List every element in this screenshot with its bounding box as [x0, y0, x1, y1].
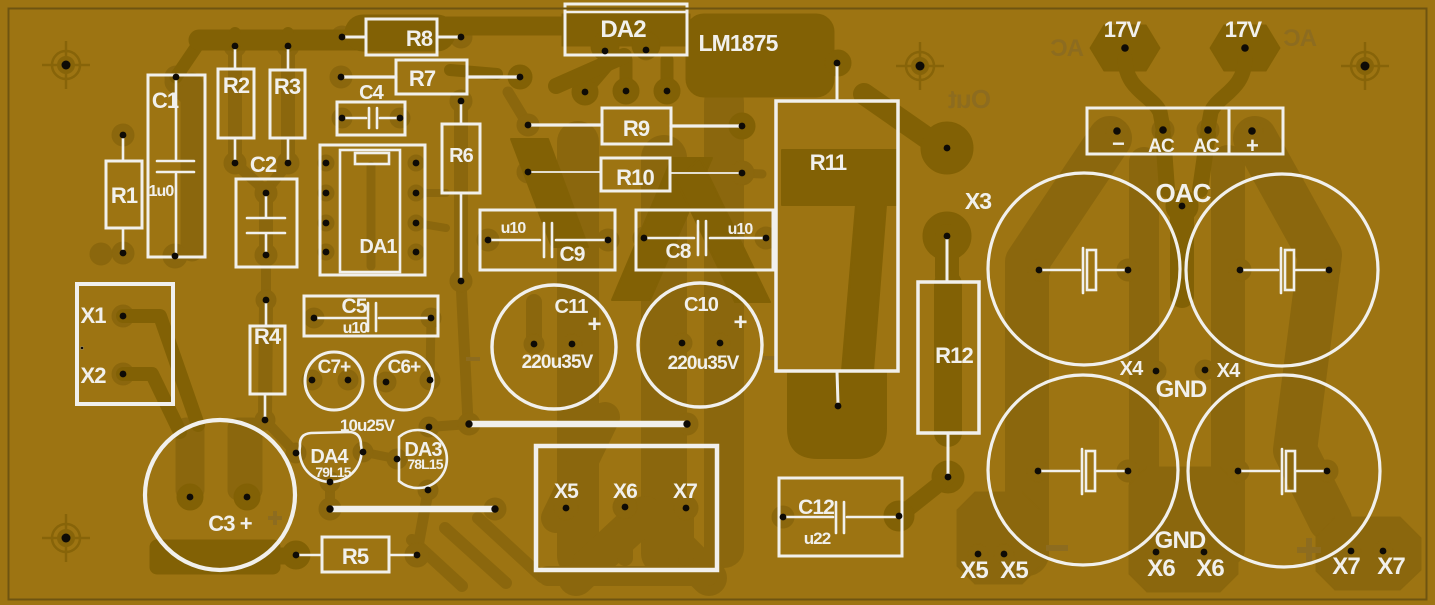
copper stems X5 X6 X7: [566, 507, 686, 558]
copper dark trace 17V left: [1125, 58, 1163, 128]
copper trace DA4 to DA3: [363, 452, 397, 459]
drill holes right: [975, 44, 1387, 557]
copper dark hex pad 17V left: [1090, 25, 1160, 71]
copper minus mark big cap bottom-left: [1046, 545, 1068, 551]
connector AC input: [1087, 108, 1283, 154]
svg-text:R10: R10: [616, 165, 654, 190]
copper band right inner left: [1129, 162, 1159, 549]
drill holes middle: [458, 47, 952, 521]
capacitor C2: [236, 179, 297, 267]
copper dark pour X3 bottom: [923, 212, 971, 260]
copper trace C5 to C6: [430, 318, 431, 378]
copper dark blob below R11: [788, 371, 886, 458]
svg-text:GND: GND: [1155, 527, 1206, 554]
svg-text:220u35V: 220u35V: [522, 352, 594, 373]
copper dark band R8 area: [363, 15, 437, 52]
copper dark lambda left: [612, 158, 712, 300]
copper octagon pour X5 X5: [957, 492, 1040, 584]
copper trace inside R3: [281, 52, 295, 158]
svg-text:+: +: [733, 309, 747, 336]
copper trace R2 bottom to C2: [235, 163, 266, 191]
svg-text:X6: X6: [1196, 555, 1224, 582]
copper trace R5 to DA3: [417, 492, 428, 552]
fiducial top-middle: [896, 42, 944, 90]
copper dark band R8 to DA2: [440, 17, 564, 36]
copper octagon pour GND X6: [1129, 467, 1238, 592]
capacitor C3: [145, 420, 295, 570]
copper trace inside C1: [176, 82, 192, 250]
svg-text:R7: R7: [409, 66, 436, 91]
drill holes left: [81, 34, 691, 559]
svg-text:X3: X3: [965, 188, 991, 214]
capacitor C12: [779, 478, 902, 556]
resistor R4: [250, 303, 285, 417]
copper dark stems to pads: [586, 60, 667, 90]
resistor R5: [299, 537, 414, 572]
copper band right inner right: [1211, 162, 1245, 549]
copper dark C3 band: [150, 540, 280, 574]
svg-text:X6: X6: [613, 480, 637, 503]
svg-text:79L15: 79L15: [315, 464, 351, 480]
copper octagon pour X7 X7: [1316, 517, 1421, 590]
svg-text:17V: 17V: [1104, 17, 1142, 42]
copper trace inside R4: [265, 305, 266, 416]
big capacitor top-left: [988, 173, 1180, 365]
copper trace R9 left: [508, 92, 528, 125]
svg-text:17V: 17V: [1225, 17, 1263, 42]
svg-text:X6: X6: [1147, 555, 1175, 582]
svg-text:X7: X7: [1377, 553, 1405, 580]
svg-text:C12: C12: [798, 496, 834, 519]
resistor R3: [270, 48, 305, 161]
svg-text:R6: R6: [449, 145, 474, 167]
drill holes DA1: [323, 160, 420, 256]
svg-text:−: −: [1112, 131, 1124, 156]
svg-text:C3 +: C3 +: [208, 511, 252, 536]
copper minus mark near C10: [763, 356, 777, 360]
copper trace DA1 inner: [367, 166, 376, 266]
copper trace R10 right: [742, 173, 762, 174]
capacitor C7: [305, 352, 363, 410]
resistor R10: [531, 158, 739, 191]
svg-text:X4: X4: [1217, 360, 1241, 382]
capacitor C8: [636, 210, 773, 270]
copper dark stubs R2 R3: [235, 33, 288, 46]
svg-text:X4: X4: [1120, 358, 1144, 380]
copper dark trace 17V right: [1208, 58, 1245, 128]
svg-text:X7: X7: [673, 480, 697, 503]
svg-text:C7+: C7+: [318, 357, 351, 378]
svg-text:X1: X1: [80, 303, 106, 328]
copper dark hex pad 17V right: [1210, 25, 1280, 71]
regulator DA4: [300, 432, 362, 482]
IC DA1: [320, 145, 425, 275]
copper dark R11 seven shape: [782, 150, 898, 371]
copper trace R6 vertical: [454, 101, 468, 281]
svg-text:X2: X2: [80, 363, 106, 388]
copper dark trace X1: [123, 316, 198, 425]
copper dark wedge mid-left: [511, 139, 588, 247]
svg-text:R5: R5: [342, 544, 369, 569]
copper trace DA3 to jumper2: [429, 424, 469, 427]
capacitor C5: [304, 296, 438, 336]
capacitor C10: [638, 283, 762, 407]
copper pads group right: [968, 119, 1393, 564]
capacitor C11: [492, 285, 616, 409]
copper minus mark near C11: [466, 357, 480, 361]
copper trace C2 to R4: [261, 255, 271, 300]
svg-text:R3: R3: [274, 74, 301, 99]
copper dark band R12 interior: [934, 284, 962, 433]
copper dark trace C1 top to band: [176, 46, 197, 77]
svg-text:C6+: C6+: [388, 357, 421, 378]
copper dark lambda right: [676, 158, 770, 302]
jumper wire 1: [330, 506, 495, 513]
copper band V2: [641, 158, 687, 553]
copper dark diagonal wedge: [556, 56, 624, 86]
copper dark band LM1875: [686, 14, 834, 97]
connector X1 X2: [77, 284, 173, 404]
copper band V1: [557, 142, 599, 556]
copper plus mark near C3: [268, 516, 282, 520]
capacitor C4: [337, 102, 405, 135]
svg-text:C8: C8: [665, 240, 691, 263]
svg-text:R12: R12: [935, 343, 973, 368]
copper stem C11 left pad: [526, 302, 542, 344]
copper trace R3 bottom to C2: [266, 163, 288, 191]
copper diag under C11: [556, 417, 605, 518]
svg-text:R8: R8: [406, 26, 433, 51]
copper diagonal traces bottom left: [412, 540, 462, 586]
svg-text:GND: GND: [1156, 376, 1207, 403]
copper dark trace X2: [123, 374, 180, 432]
resistor R9: [531, 108, 739, 144]
svg-text:LM1875: LM1875: [699, 30, 779, 56]
resistor R12: [918, 282, 979, 475]
resistor R8: [344, 19, 459, 55]
resistor R1: [106, 138, 142, 250]
copper X shape bottom: [576, 514, 709, 578]
svg-text:78L15: 78L15: [407, 456, 443, 472]
svg-text:R11: R11: [810, 150, 847, 175]
svg-text:X5: X5: [960, 557, 988, 584]
copper trace DA4 to jumper: [325, 482, 335, 509]
big capacitor bottom-left: [988, 375, 1178, 565]
svg-text:C9: C9: [559, 243, 584, 266]
capacitor C6: [375, 352, 433, 410]
copper stems C3: [176, 418, 204, 500]
svg-text:R9: R9: [623, 116, 650, 141]
svg-text:u10: u10: [501, 220, 527, 237]
svg-text:+: +: [1246, 133, 1258, 158]
svg-text:+: +: [587, 311, 601, 338]
copper dark stubs AC to OAC: [1163, 134, 1208, 190]
copper band V3: [704, 102, 744, 548]
capacitor C9: [480, 210, 615, 270]
fiducial top-left: [42, 41, 90, 89]
svg-text:X5: X5: [554, 480, 579, 503]
copper band right M right leg: [1255, 138, 1330, 520]
resistor R6: [442, 103, 480, 279]
svg-text:u10: u10: [343, 320, 369, 337]
svg-text:10u25V: 10u25V: [340, 416, 396, 435]
copper trace R6 to jumper2: [461, 281, 468, 422]
big capacitor bottom-right: [1188, 375, 1380, 567]
resistor R7: [344, 60, 517, 94]
svg-text:1u0: 1u0: [149, 183, 175, 200]
regulator DA3: [399, 430, 447, 488]
svg-text:Out: Out: [948, 84, 991, 114]
svg-text:C10: C10: [684, 294, 719, 316]
svg-text:220u35V: 220u35V: [668, 353, 740, 374]
svg-text:C11: C11: [555, 296, 589, 318]
capacitor C1: [148, 75, 205, 257]
copper trace inside R2: [228, 52, 242, 158]
resistor R11: [776, 65, 898, 404]
copper dark pour X3 top: [921, 122, 973, 174]
copper trace inside C2: [259, 198, 273, 251]
connector X5 X6 X7: [536, 446, 717, 570]
svg-text:AC: AC: [1284, 25, 1317, 52]
copper stubs DA1 right: [416, 193, 446, 228]
fiducial top-right: [1341, 42, 1389, 90]
IC DA2: [565, 4, 687, 55]
svg-text:AC: AC: [1148, 136, 1175, 157]
copper plus mark big cap bottom-right: [1297, 547, 1321, 553]
svg-text:DA1: DA1: [359, 236, 397, 258]
svg-text:DA2: DA2: [600, 16, 646, 43]
svg-text:R1: R1: [111, 183, 138, 208]
copper dark top band thin: [199, 30, 361, 51]
copper dark link to X3 pour: [864, 94, 930, 140]
svg-text:AC: AC: [1193, 136, 1220, 157]
copper dark pour OAC: [1166, 190, 1198, 222]
svg-text:C5: C5: [341, 295, 367, 318]
copper dark trace R7 right: [450, 70, 497, 74]
copper band right M left leg: [1027, 138, 1110, 554]
svg-text:C2: C2: [250, 152, 277, 177]
copper pads group middle: [450, 40, 961, 529]
copper dark band DA2 area: [562, 14, 690, 46]
svg-text:C1: C1: [152, 88, 179, 113]
svg-text:R4: R4: [254, 324, 282, 349]
big capacitor top-right: [1186, 174, 1378, 366]
svg-text:u10: u10: [728, 221, 754, 238]
resistor R2: [218, 48, 254, 161]
svg-text:R2: R2: [223, 73, 250, 98]
svg-text:X5: X5: [1000, 557, 1028, 584]
copper dark blob R5 left: [282, 541, 310, 569]
fiducial bottom-left: [42, 514, 90, 562]
svg-text:C4: C4: [359, 82, 385, 104]
copper dark pads row: [572, 79, 598, 105]
copper trace R4 to DA4: [265, 420, 296, 453]
svg-text:X7: X7: [1332, 553, 1360, 580]
copper pads DA1: [318, 155, 424, 260]
node X3 wire: [946, 238, 949, 282]
copper pads group 1 left: [90, 26, 698, 567]
svg-text:AC: AC: [1051, 35, 1084, 62]
jumper wire 2: [469, 421, 687, 428]
copper dark blob R9 right: [729, 113, 755, 139]
svg-text:u22: u22: [804, 529, 831, 548]
